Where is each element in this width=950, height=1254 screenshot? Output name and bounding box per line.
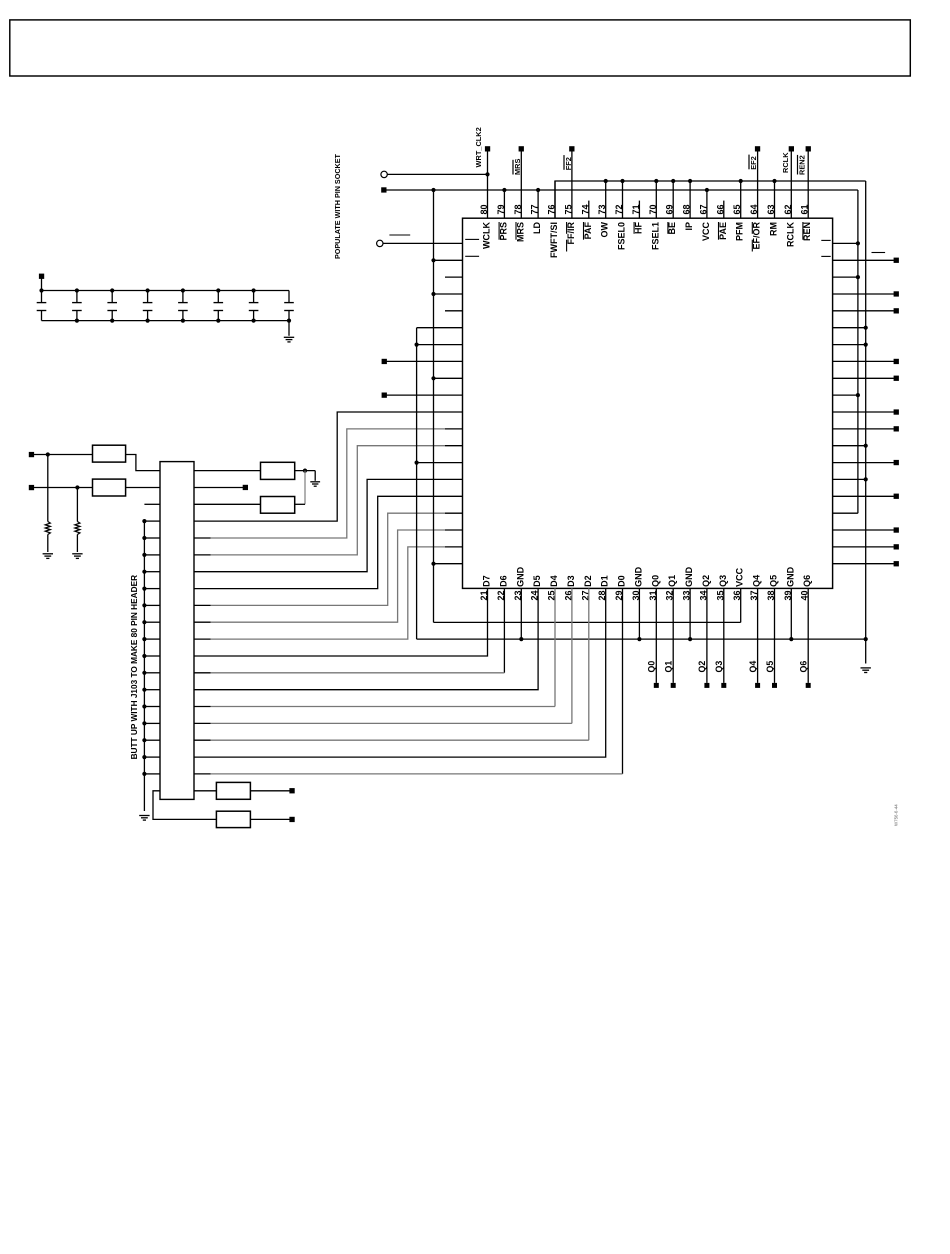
resistor R5 (216, 782, 250, 799)
terminal T3 (243, 485, 248, 490)
wire net J103-8 to U1 row 16 (194, 496, 463, 588)
terminal P1 open circle (381, 171, 387, 177)
terminal Q0 (654, 683, 659, 688)
terminal T5 (289, 817, 294, 822)
terminal (894, 291, 899, 296)
node junction (142, 671, 146, 675)
wire data net U1 pin28 to J103-18 (194, 588, 606, 757)
node junction (772, 179, 776, 183)
node junction (142, 620, 146, 624)
svg-text:GND: GND (633, 566, 643, 587)
wire (833, 360, 894, 362)
svg-text:MRS: MRS (513, 159, 522, 175)
terminal Q3 (721, 683, 726, 688)
overbar (748, 155, 750, 170)
node junction (654, 179, 658, 183)
wire VCC bus A (433, 190, 435, 622)
node junction (142, 688, 146, 692)
node junction (864, 477, 868, 481)
ground (139, 815, 149, 817)
wire pin (757, 149, 759, 218)
wire data net U1 pin22 to J103-13 (503, 588, 505, 672)
wire J103 pin 14 left (144, 689, 160, 691)
overbar (515, 222, 517, 240)
capacitor C7 (253, 291, 255, 303)
node junction (142, 553, 146, 557)
svg-text:MRS: MRS (515, 222, 525, 242)
wire (833, 563, 894, 565)
terminal Q1 (671, 683, 676, 688)
node junction (431, 292, 435, 296)
terminal (894, 527, 899, 532)
wire pin (655, 181, 657, 218)
wire data net U1 pin24 to J103-14 (194, 588, 538, 689)
svg-text:D3: D3 (566, 575, 576, 587)
wire (417, 327, 463, 329)
svg-text:RM: RM (769, 222, 779, 236)
wire net J103-10 to U1 row 18 (194, 621, 211, 623)
wire (387, 360, 463, 362)
wire (833, 411, 894, 413)
node junction (181, 319, 185, 323)
pin name dash (465, 255, 479, 257)
terminal Q4 (755, 683, 760, 688)
svg-text:Q6: Q6 (799, 661, 809, 673)
svg-text:REN: REN (802, 222, 812, 241)
wire pin (774, 181, 776, 218)
svg-text:IP: IP (684, 222, 694, 231)
wire J103 pin 7 left (144, 571, 160, 573)
svg-text:WRT_CLK2: WRT_CLK2 (474, 127, 483, 167)
wire (833, 428, 894, 430)
svg-text:Q2: Q2 (701, 575, 711, 587)
svg-text:PRS: PRS (498, 222, 508, 241)
overbar (802, 222, 804, 240)
wire J103 pin 5 left (144, 537, 160, 539)
node junction (620, 179, 624, 183)
wire (833, 344, 866, 346)
node junction (142, 704, 146, 708)
resistor R3 (261, 462, 295, 479)
node junction (146, 288, 150, 292)
wire (833, 445, 866, 447)
node junction (415, 343, 419, 347)
node junction (110, 319, 114, 323)
wire (41, 279, 43, 291)
svg-text:PAF: PAF (583, 222, 593, 240)
pin name dash (465, 238, 479, 240)
terminal (894, 409, 899, 414)
resistor R8 pulldown (76, 488, 78, 522)
connector J103 body (160, 462, 194, 800)
wire net J103-6 to U1 row 13 (194, 554, 211, 556)
wire J103 pin 10 left (144, 621, 160, 623)
node junction (142, 772, 146, 776)
wire (833, 529, 894, 531)
overbar (797, 155, 799, 175)
svg-text:POPULATE WITH PIN SOCKET: POPULATE WITH PIN SOCKET (333, 154, 342, 259)
wire J103 pin 8 left (144, 588, 160, 590)
wire pin (672, 181, 674, 218)
overbar (563, 155, 565, 170)
wire (434, 293, 463, 295)
wire pin (689, 181, 691, 218)
wire pin (790, 149, 792, 218)
svg-text:VCC: VCC (735, 567, 745, 587)
node junction (502, 188, 506, 192)
wire (304, 471, 306, 505)
node junction (110, 288, 114, 292)
terminal T2 (29, 485, 34, 490)
title block frame (10, 20, 911, 76)
node junction (252, 288, 256, 292)
resistor R2 (93, 479, 126, 496)
svg-text:HF: HF (633, 222, 643, 234)
svg-text:D6: D6 (498, 575, 508, 587)
wire pin stub (445, 310, 463, 312)
terminal P2 open circle (377, 240, 383, 246)
capacitor C6 (217, 291, 219, 303)
wire (740, 588, 742, 622)
node junction (142, 755, 146, 759)
wire J103 pin 11 left (144, 638, 160, 640)
wire data net U1 pin21 to J103-12 (194, 588, 488, 656)
node junction (75, 485, 79, 489)
overbar (751, 240, 753, 252)
node junction (431, 376, 435, 380)
wire net J103-9 to U1 row 17 (194, 604, 211, 606)
wire line2 (555, 181, 866, 218)
wire data net U1 pin29 to J103-19 (622, 588, 624, 774)
wire V2 (865, 181, 867, 664)
wire GND pin 23 (520, 588, 522, 639)
node junction (739, 179, 743, 183)
svg-text:D5: D5 (532, 575, 542, 587)
wire output Q4 (757, 588, 759, 683)
svg-text:Q6: Q6 (802, 575, 812, 587)
wire GND line4 (417, 638, 866, 640)
wire GND pin 33 (689, 588, 691, 639)
wire (833, 462, 894, 464)
wire pin stub (588, 201, 590, 219)
svg-text:Q5: Q5 (769, 575, 779, 587)
svg-text:GND: GND (785, 566, 795, 587)
wire pin stub (445, 276, 463, 278)
node junction (864, 326, 868, 330)
node junction (485, 172, 489, 176)
svg-text:D7: D7 (482, 575, 492, 587)
svg-text:WCLK: WCLK (482, 222, 492, 249)
wire (288, 321, 290, 336)
wire (194, 470, 261, 472)
svg-text:Q3: Q3 (718, 575, 728, 587)
wire (194, 503, 261, 505)
node junction (864, 444, 868, 448)
wire VCC line3 (434, 621, 741, 623)
wire (250, 790, 289, 792)
terminal (894, 426, 899, 431)
wire net J103-4 to U1 row 11 (194, 412, 463, 521)
svg-text:PAE: PAE (718, 222, 728, 240)
svg-text:Q4: Q4 (752, 575, 762, 587)
node junction (637, 637, 641, 641)
svg-text:VCC: VCC (701, 222, 711, 242)
terminal Q2 (704, 683, 709, 688)
wire J103 pin 16 left (144, 722, 160, 724)
wire (434, 563, 463, 565)
terminal net MRS (519, 146, 524, 151)
wire (126, 487, 160, 489)
wire J103 pin 19 left (144, 773, 160, 775)
wire pin (706, 190, 708, 218)
node junction (789, 637, 793, 641)
node junction (287, 319, 291, 323)
node junction (181, 288, 185, 292)
wire J103 pin 17 left (144, 739, 160, 741)
svg-text:RCLK: RCLK (785, 222, 795, 247)
wire (833, 394, 858, 396)
wire GND bus B (416, 328, 418, 639)
capacitor C3 (111, 291, 113, 303)
ground (43, 553, 53, 555)
wire output Q1 (672, 588, 674, 683)
node junction (146, 319, 150, 323)
ground (310, 481, 320, 483)
wire J103 pin 13 left (144, 672, 160, 674)
terminal net REN2 (806, 146, 811, 151)
overbar (633, 222, 635, 234)
terminal T6 (381, 187, 386, 192)
pin name dash (821, 255, 830, 257)
wire (833, 377, 894, 379)
overbar (498, 222, 500, 240)
svg-text:D4: D4 (549, 575, 559, 587)
wire (833, 259, 894, 261)
terminal net RCLK (789, 146, 794, 151)
node junction (75, 288, 79, 292)
svg-text:Q5: Q5 (765, 661, 775, 673)
node junction (864, 637, 868, 641)
overbar (667, 222, 669, 234)
svg-text:EF2: EF2 (749, 156, 758, 170)
wire pin (571, 149, 573, 218)
overbar (566, 222, 568, 234)
wire cap-bank top rail (42, 290, 290, 292)
node junction (142, 603, 146, 607)
wire data net U1 pin27 to J103-17 (588, 588, 590, 740)
node junction (142, 587, 146, 591)
wire (250, 818, 289, 820)
wire (417, 462, 463, 464)
ground (861, 667, 871, 669)
terminal T4 (289, 788, 294, 793)
net label dash (872, 252, 886, 254)
node junction (142, 738, 146, 742)
overbar (751, 222, 753, 234)
terminal (894, 561, 899, 566)
node junction (303, 469, 307, 473)
wire pin (605, 181, 607, 218)
node junction (688, 179, 692, 183)
wire (833, 512, 858, 514)
node junction (142, 637, 146, 641)
wire output Q3 (723, 588, 725, 683)
node junction (856, 241, 860, 245)
overbar (566, 240, 568, 252)
wire pin (503, 190, 505, 218)
node junction (671, 179, 675, 183)
svg-text:OW: OW (600, 221, 610, 237)
wire (833, 293, 894, 295)
wire (387, 394, 463, 396)
terminal (894, 460, 899, 465)
node junction (142, 721, 146, 725)
wire (833, 276, 858, 278)
wire (153, 791, 216, 820)
wire (295, 470, 316, 472)
node junction (142, 654, 146, 658)
node junction (864, 343, 868, 347)
overbar (718, 222, 720, 240)
svg-text:Q1: Q1 (667, 575, 677, 587)
pin name dash (821, 239, 830, 241)
wire J103 pin 6 left (144, 554, 160, 556)
wire J103 left ground bus (143, 521, 145, 811)
svg-text:GND: GND (515, 566, 525, 587)
node junction (75, 319, 79, 323)
svg-text:BUTT UP WITH J103 TO MAKE 80 P: BUTT UP WITH J103 TO MAKE 80 PIN HEADER (130, 575, 139, 759)
svg-text:REN2: REN2 (798, 155, 807, 175)
wire (833, 478, 866, 480)
svg-text:FWFT/SI: FWFT/SI (549, 222, 559, 258)
wire (417, 344, 463, 346)
wire (295, 503, 305, 505)
wire GND pin 39 (790, 588, 792, 639)
svg-text:PFM: PFM (735, 222, 745, 241)
node junction (142, 570, 146, 574)
node junction (536, 188, 540, 192)
wire line1 (386, 189, 858, 191)
node junction (431, 258, 435, 262)
wire pin stub (723, 201, 725, 219)
wire output Q0 (655, 588, 657, 683)
wire (833, 495, 894, 497)
resistor R7 pulldown (47, 455, 49, 522)
wire output Q2 (706, 588, 708, 683)
wire V1 (857, 190, 859, 513)
wire (833, 327, 866, 329)
terminal (894, 359, 899, 364)
capacitor C8 (288, 291, 290, 303)
terminal (894, 376, 899, 381)
net label dash (389, 234, 410, 236)
wire net J103-11 to U1 row 19 (194, 638, 211, 640)
svg-text:Q1: Q1 (664, 661, 674, 673)
wire (434, 259, 463, 261)
wire J103 pin 4 left (144, 520, 160, 522)
wire pin (537, 190, 539, 218)
wire (434, 377, 463, 379)
wire net J103-7 to U1 row 15 (194, 479, 463, 571)
terminal (894, 544, 899, 549)
svg-text:Q4: Q4 (748, 661, 758, 673)
svg-text:Q2: Q2 (697, 661, 707, 673)
node junction (216, 319, 220, 323)
svg-text:FSEL0: FSEL0 (617, 222, 627, 250)
wire output Q6 (807, 588, 809, 683)
wire (383, 242, 463, 244)
svg-text:RCLK: RCLK (781, 152, 790, 173)
svg-text:FF2: FF2 (564, 157, 573, 170)
node junction (216, 288, 220, 292)
svg-text:GND: GND (684, 566, 694, 587)
node junction (431, 562, 435, 566)
terminal T8 (382, 393, 387, 398)
terminal T7 (382, 359, 387, 364)
wire (833, 242, 858, 244)
wire pin (740, 181, 742, 218)
wire cap-bank bottom rail (42, 320, 290, 322)
wire pin (807, 149, 809, 218)
terminal (894, 308, 899, 313)
node junction (46, 452, 50, 456)
wire J103 pin 12 left (144, 655, 160, 657)
overbar (512, 160, 514, 175)
wire (194, 487, 243, 489)
wire pin (554, 181, 556, 218)
resistor R6 (216, 811, 250, 827)
wire net J103-5 to U1 row 12 (194, 537, 211, 539)
wire pin (622, 181, 624, 218)
terminal (894, 494, 899, 499)
node junction (142, 519, 146, 523)
wire data net U1 pin25 to J103-15 (554, 588, 556, 706)
svg-text:LD: LD (532, 222, 542, 234)
svg-text:W756-6-44: W756-6-44 (894, 804, 899, 826)
wire (34, 487, 93, 489)
wire pin (487, 149, 489, 218)
ground (72, 553, 82, 555)
wire data net U1 pin26 to J103-16 (571, 588, 573, 723)
terminal Q6 (806, 683, 811, 688)
node junction (415, 461, 419, 465)
svg-text:EF/OR: EF/OR (752, 222, 762, 250)
terminal net EF2 (755, 146, 760, 151)
wire (833, 546, 894, 548)
terminal T1 (29, 452, 34, 457)
capacitor C1 (41, 291, 43, 303)
wire (34, 454, 93, 456)
node junction (519, 637, 523, 641)
svg-text:Q3: Q3 (714, 661, 724, 673)
node junction (604, 179, 608, 183)
node junction (252, 319, 256, 323)
terminal (894, 258, 899, 263)
node junction (705, 188, 709, 192)
node junction (688, 637, 692, 641)
terminal net WRT_CLK2 (485, 146, 490, 151)
wire (833, 310, 894, 312)
wire output Q5 (774, 588, 776, 683)
svg-text:FSEL1: FSEL1 (650, 222, 660, 250)
wire pin (520, 149, 522, 218)
wire J103 pin 9 left (144, 604, 160, 606)
node junction (856, 275, 860, 279)
wire GND pin 30 (638, 588, 640, 639)
svg-text:FF/IR: FF/IR (566, 222, 576, 245)
svg-text:D2: D2 (583, 575, 593, 587)
capacitor C2 (76, 291, 78, 303)
